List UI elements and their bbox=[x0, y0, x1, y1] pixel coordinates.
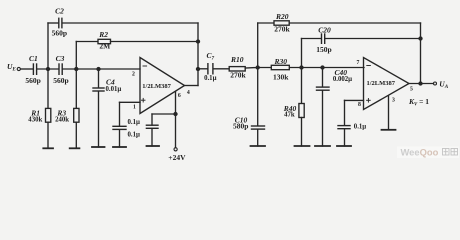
capacitor C3 560p bbox=[59, 64, 62, 74]
ground pin 3 bbox=[382, 129, 396, 131]
svg-text:7: 7 bbox=[357, 60, 360, 66]
node junction C4 bbox=[97, 68, 100, 71]
svg-text:KV = 1: KV = 1 bbox=[408, 97, 429, 107]
wire riser node to C2 top line bbox=[47, 23, 49, 69]
wire top line C2 to feedback column bbox=[63, 22, 198, 24]
ground pin6 cap bbox=[147, 145, 160, 147]
capacitor C2 560p bbox=[59, 18, 62, 27]
node junction pin6 / bypass bbox=[174, 113, 177, 116]
svg-text:2: 2 bbox=[132, 72, 135, 78]
wire R2 right to feedback column bbox=[111, 41, 199, 43]
main line right half bbox=[258, 67, 364, 69]
watermark backdrop bbox=[397, 147, 459, 159]
node junction output / feedback column bbox=[419, 82, 422, 85]
wire output column down bbox=[420, 23, 422, 84]
wire feedback column bbox=[197, 23, 199, 86]
ground R1 bbox=[43, 147, 53, 149]
wire output to C7 bbox=[198, 68, 207, 70]
wire riser node to R2 line bbox=[75, 42, 77, 70]
wire R10 to node bbox=[245, 67, 258, 70]
svg-text:150p: 150p bbox=[316, 45, 331, 54]
wire R20 right to output column bbox=[289, 22, 420, 24]
svg-text:C20: C20 bbox=[318, 25, 331, 34]
node junction C20 line / output column bbox=[419, 37, 422, 40]
svg-text:270k: 270k bbox=[230, 71, 246, 80]
ground pin1 cap bbox=[113, 146, 126, 148]
output terminal U_A bbox=[434, 82, 437, 85]
resistor R3 240k (wire down) bbox=[75, 69, 77, 108]
resistor R1 430k (wire down) bbox=[47, 69, 49, 108]
wire input to C1 bbox=[21, 68, 33, 70]
wire top line left of C2 bbox=[48, 22, 58, 24]
capacitor C1 560p bbox=[33, 64, 36, 74]
capacitor C20 150p bbox=[322, 34, 325, 43]
wire R2 left bbox=[76, 41, 98, 43]
capacitor 0.1u at pin 6 bbox=[146, 125, 158, 128]
wire C7 to R10 bbox=[214, 68, 230, 70]
svg-text:580p: 580p bbox=[233, 121, 248, 130]
resistor R30 130k bbox=[271, 65, 289, 69]
svg-text:C3: C3 bbox=[56, 54, 65, 63]
output wire op-amp U1 bbox=[185, 85, 199, 87]
wire riser node to C20 line bbox=[301, 39, 303, 68]
wire C20 left bbox=[302, 38, 322, 40]
pin 3 wire down to ground bbox=[388, 96, 390, 130]
resistor R20 270k bbox=[274, 21, 289, 25]
wire R20 left bbox=[258, 22, 274, 24]
svg-text:1: 1 bbox=[133, 105, 136, 111]
svg-text:1/2LM387: 1/2LM387 bbox=[367, 80, 396, 87]
plus mark U2 bbox=[367, 99, 371, 103]
capacitor C40 0.002u (wire down) bbox=[322, 68, 324, 87]
capacitor C4 0.01u (wire down) bbox=[98, 69, 100, 88]
wire pin6 node to second 0.1u cap bbox=[152, 113, 176, 115]
svg-text:+24V: +24V bbox=[168, 153, 186, 162]
svg-text:0.1µ: 0.1µ bbox=[128, 119, 140, 126]
wire C20 right to output column bbox=[325, 38, 420, 40]
svg-text:C2: C2 bbox=[55, 7, 64, 16]
svg-text:0.1µ: 0.1µ bbox=[204, 75, 216, 82]
pin 1 wire to bypass cap bbox=[120, 101, 141, 103]
input terminal U_E bbox=[17, 67, 20, 70]
capacitor C7 0.1u bbox=[208, 64, 213, 74]
svg-text:270k: 270k bbox=[274, 25, 290, 34]
capacitor 0.1u at pin 8 bbox=[338, 126, 350, 129]
node junction R2 feedback and R3 bbox=[75, 68, 78, 71]
svg-text:560p: 560p bbox=[53, 76, 68, 85]
pin 6 wire down to +24V bbox=[175, 92, 177, 148]
ground R40 bbox=[295, 145, 310, 147]
svg-text:R20: R20 bbox=[275, 12, 289, 21]
watermark CJK marks bbox=[443, 149, 458, 156]
+24V terminal bbox=[174, 148, 177, 151]
svg-text:R2: R2 bbox=[98, 30, 108, 39]
svg-text:6: 6 bbox=[178, 93, 181, 99]
svg-text:4: 4 bbox=[187, 90, 190, 96]
node junction R10/R20/C10 bbox=[256, 66, 259, 69]
capacitor C10 580p (wire down) bbox=[257, 68, 259, 126]
node junction C40 bbox=[321, 66, 324, 69]
wire C3 to op-amp pin 2 bbox=[63, 68, 140, 70]
resistor R2 2M bbox=[98, 39, 111, 43]
node junction feedback column / output line bbox=[197, 68, 200, 71]
ground pin8 cap bbox=[337, 145, 351, 147]
svg-text:2M: 2M bbox=[99, 41, 110, 50]
ground C10 bbox=[251, 145, 266, 147]
resistor R10 270k bbox=[229, 67, 245, 71]
pin 8 wire to bypass cap bbox=[345, 99, 364, 101]
svg-text:1/2LM387: 1/2LM387 bbox=[142, 83, 171, 90]
svg-text:130k: 130k bbox=[273, 73, 289, 82]
svg-text:5: 5 bbox=[410, 87, 413, 93]
ground R3 bbox=[70, 147, 80, 149]
svg-text:3: 3 bbox=[392, 97, 395, 103]
svg-text:C1: C1 bbox=[29, 54, 38, 63]
minus mark U1 bbox=[143, 65, 147, 67]
svg-text:0.002µ: 0.002µ bbox=[333, 76, 352, 83]
svg-text:0.01µ: 0.01µ bbox=[106, 86, 122, 93]
minus mark U2 bbox=[367, 65, 371, 67]
svg-text:C4: C4 bbox=[106, 78, 115, 87]
resistor R40 47k (wire down) bbox=[301, 68, 303, 104]
svg-text:560p: 560p bbox=[52, 29, 67, 38]
wire C1 to C3 bbox=[37, 68, 58, 70]
svg-text:0.1µ: 0.1µ bbox=[354, 124, 366, 131]
op-amp U2 1/2LM387 bbox=[364, 58, 410, 110]
plus mark U1 bbox=[141, 98, 145, 102]
output wire op-amp U2 bbox=[409, 83, 433, 85]
node junction R2 line / feedback column bbox=[197, 40, 200, 43]
wire riser to R20 bbox=[257, 23, 259, 68]
svg-text:8: 8 bbox=[358, 102, 361, 108]
node junction C1-C3-C2-R1 bbox=[47, 68, 50, 71]
ground C40 bbox=[315, 145, 330, 147]
svg-text:R30: R30 bbox=[273, 57, 287, 66]
op-amp U1 1/2LM387 bbox=[140, 58, 185, 114]
svg-text:WeeQoo: WeeQoo bbox=[401, 146, 439, 157]
svg-text:240k: 240k bbox=[55, 117, 69, 124]
svg-text:430k: 430k bbox=[28, 117, 42, 124]
svg-text:560p: 560p bbox=[25, 76, 40, 85]
capacitor 0.1u at pin 1 bbox=[113, 126, 126, 129]
ground C4 bbox=[92, 146, 105, 148]
svg-text:47k: 47k bbox=[284, 111, 295, 118]
svg-text:0.1µ: 0.1µ bbox=[128, 132, 140, 139]
node junction C20/R40 bbox=[300, 66, 303, 69]
svg-text:R10: R10 bbox=[230, 55, 244, 64]
